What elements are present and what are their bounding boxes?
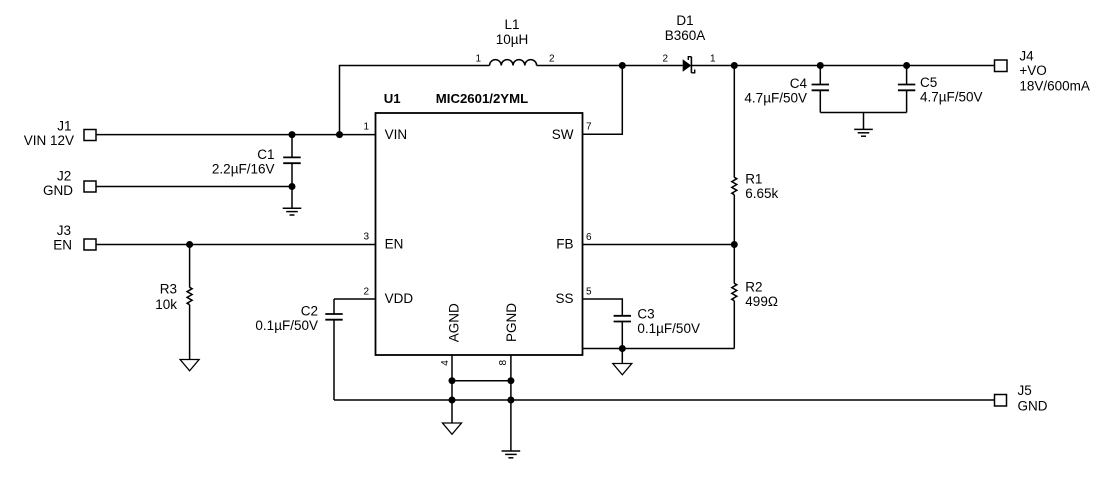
svg-text:C4: C4 <box>790 76 808 91</box>
capacitor C2 <box>333 299 335 314</box>
node C1/GND junction <box>289 183 296 190</box>
node SW junction <box>619 62 626 69</box>
svg-text:10k: 10k <box>155 297 177 312</box>
wire SS pin to C3 <box>583 299 623 316</box>
ground triangle R3 <box>180 360 199 371</box>
svg-text:0.1µF/50V: 0.1µF/50V <box>637 321 700 336</box>
svg-text:4.7µF/50V: 4.7µF/50V <box>920 90 983 105</box>
diode D1 <box>683 59 692 71</box>
svg-text:1: 1 <box>363 122 369 133</box>
connector J5 <box>995 395 1007 407</box>
svg-text:VIN 12V: VIN 12V <box>24 133 74 148</box>
resistor R1 <box>733 66 735 178</box>
node VIN/top-rail junction <box>336 131 343 138</box>
svg-text:8: 8 <box>498 360 509 366</box>
resistor R2 <box>733 245 735 284</box>
node C3/ground junction <box>619 345 626 352</box>
svg-text:0.1µF/50V: 0.1µF/50V <box>255 318 318 333</box>
svg-text:SW: SW <box>552 127 574 142</box>
svg-text:MIC2601/2YML: MIC2601/2YML <box>436 91 528 106</box>
wire riser to top rail <box>340 66 490 135</box>
wire J2 to C1 <box>96 186 292 188</box>
inductor L1 <box>490 60 537 66</box>
svg-text:SS: SS <box>555 291 573 306</box>
wire PGND pin <box>510 355 512 400</box>
svg-text:PGND: PGND <box>504 303 519 342</box>
node EN/R3 junction <box>186 241 193 248</box>
svg-text:+VO: +VO <box>1019 63 1046 78</box>
capacitor C5 <box>906 66 908 85</box>
svg-text:J2: J2 <box>57 169 71 184</box>
svg-text:6: 6 <box>586 232 592 243</box>
svg-text:2.2µF/16V: 2.2µF/16V <box>212 162 275 177</box>
svg-text:J5: J5 <box>1018 383 1032 398</box>
ground triangle AGND <box>451 400 453 423</box>
wire AGND-PGND link <box>452 380 511 382</box>
node VIN/C1 junction <box>289 131 296 138</box>
ground triangle C3 <box>621 349 623 364</box>
svg-text:4.7µF/50V: 4.7µF/50V <box>744 91 807 106</box>
svg-text:D1: D1 <box>676 13 693 28</box>
svg-text:6.65k: 6.65k <box>745 186 778 201</box>
node PGND rail junction <box>507 397 514 404</box>
svg-text:1: 1 <box>475 53 481 64</box>
capacitor C4 <box>819 66 821 85</box>
svg-text:AGND: AGND <box>447 303 462 342</box>
svg-text:J4: J4 <box>1019 49 1034 64</box>
svg-text:10µH: 10µH <box>496 32 529 47</box>
svg-text:EN: EN <box>53 237 72 252</box>
svg-text:5: 5 <box>586 286 592 297</box>
capacitor C1 <box>291 135 293 158</box>
svg-text:J3: J3 <box>57 223 71 238</box>
svg-text:C3: C3 <box>637 307 654 322</box>
svg-text:VDD: VDD <box>385 291 414 306</box>
svg-text:U1: U1 <box>384 91 401 106</box>
wire VDD pin to C2 <box>334 298 376 300</box>
svg-text:J1: J1 <box>57 118 71 133</box>
wire L1 to D1 anode <box>537 65 683 67</box>
node AGND link junction <box>449 377 456 384</box>
svg-text:FB: FB <box>556 237 573 252</box>
svg-text:2: 2 <box>363 286 369 297</box>
wire ground rail to J5 <box>334 399 995 401</box>
wire C4/C5 bottom link <box>820 112 906 114</box>
svg-text:C5: C5 <box>920 75 937 90</box>
connector J1 <box>84 130 96 141</box>
capacitor C3 <box>614 315 631 317</box>
svg-text:GND: GND <box>43 183 73 198</box>
svg-text:3: 3 <box>363 232 369 243</box>
svg-text:GND: GND <box>1018 399 1048 414</box>
svg-text:2: 2 <box>549 53 555 64</box>
wire AGND pin <box>451 355 453 400</box>
svg-text:R1: R1 <box>745 172 762 187</box>
ground earth C4/C5 <box>863 113 865 130</box>
connector J3 <box>84 239 96 250</box>
svg-text:VIN: VIN <box>385 127 408 142</box>
svg-text:C2: C2 <box>301 304 318 319</box>
ground earth C1 <box>291 187 293 209</box>
svg-text:499Ω: 499Ω <box>745 294 778 309</box>
svg-text:18V/600mA: 18V/600mA <box>1019 79 1090 94</box>
svg-text:4: 4 <box>440 360 451 366</box>
wire SW node to SW pin <box>583 66 623 135</box>
wire FB pin to FB node <box>583 244 735 246</box>
node FB junction <box>731 241 738 248</box>
svg-text:R2: R2 <box>745 280 762 295</box>
wire R2 bottom to C3 node <box>583 348 735 350</box>
wire J3 to EN pin <box>96 244 376 246</box>
node C5 junction <box>903 62 910 69</box>
wire D1 cathode to J4 <box>691 65 994 67</box>
svg-text:L1: L1 <box>504 17 519 32</box>
IC U1 MIC2601/2YML <box>376 113 583 355</box>
node AGND rail junction <box>449 397 456 404</box>
node PGND link junction <box>507 377 514 384</box>
node VOUT junction <box>731 62 738 69</box>
svg-text:1: 1 <box>710 54 716 65</box>
connector J2 <box>84 181 96 192</box>
ground earth PGND <box>510 400 512 451</box>
svg-text:7: 7 <box>586 122 592 133</box>
svg-text:R3: R3 <box>160 282 177 297</box>
wire J1 to VIN pin <box>96 134 376 136</box>
connector J4 <box>995 60 1008 72</box>
svg-text:B360A: B360A <box>665 28 706 43</box>
node C4 junction <box>817 62 824 69</box>
svg-text:C1: C1 <box>257 147 274 162</box>
resistor R3 <box>189 245 191 288</box>
svg-text:EN: EN <box>385 237 404 252</box>
svg-text:2: 2 <box>662 54 668 65</box>
